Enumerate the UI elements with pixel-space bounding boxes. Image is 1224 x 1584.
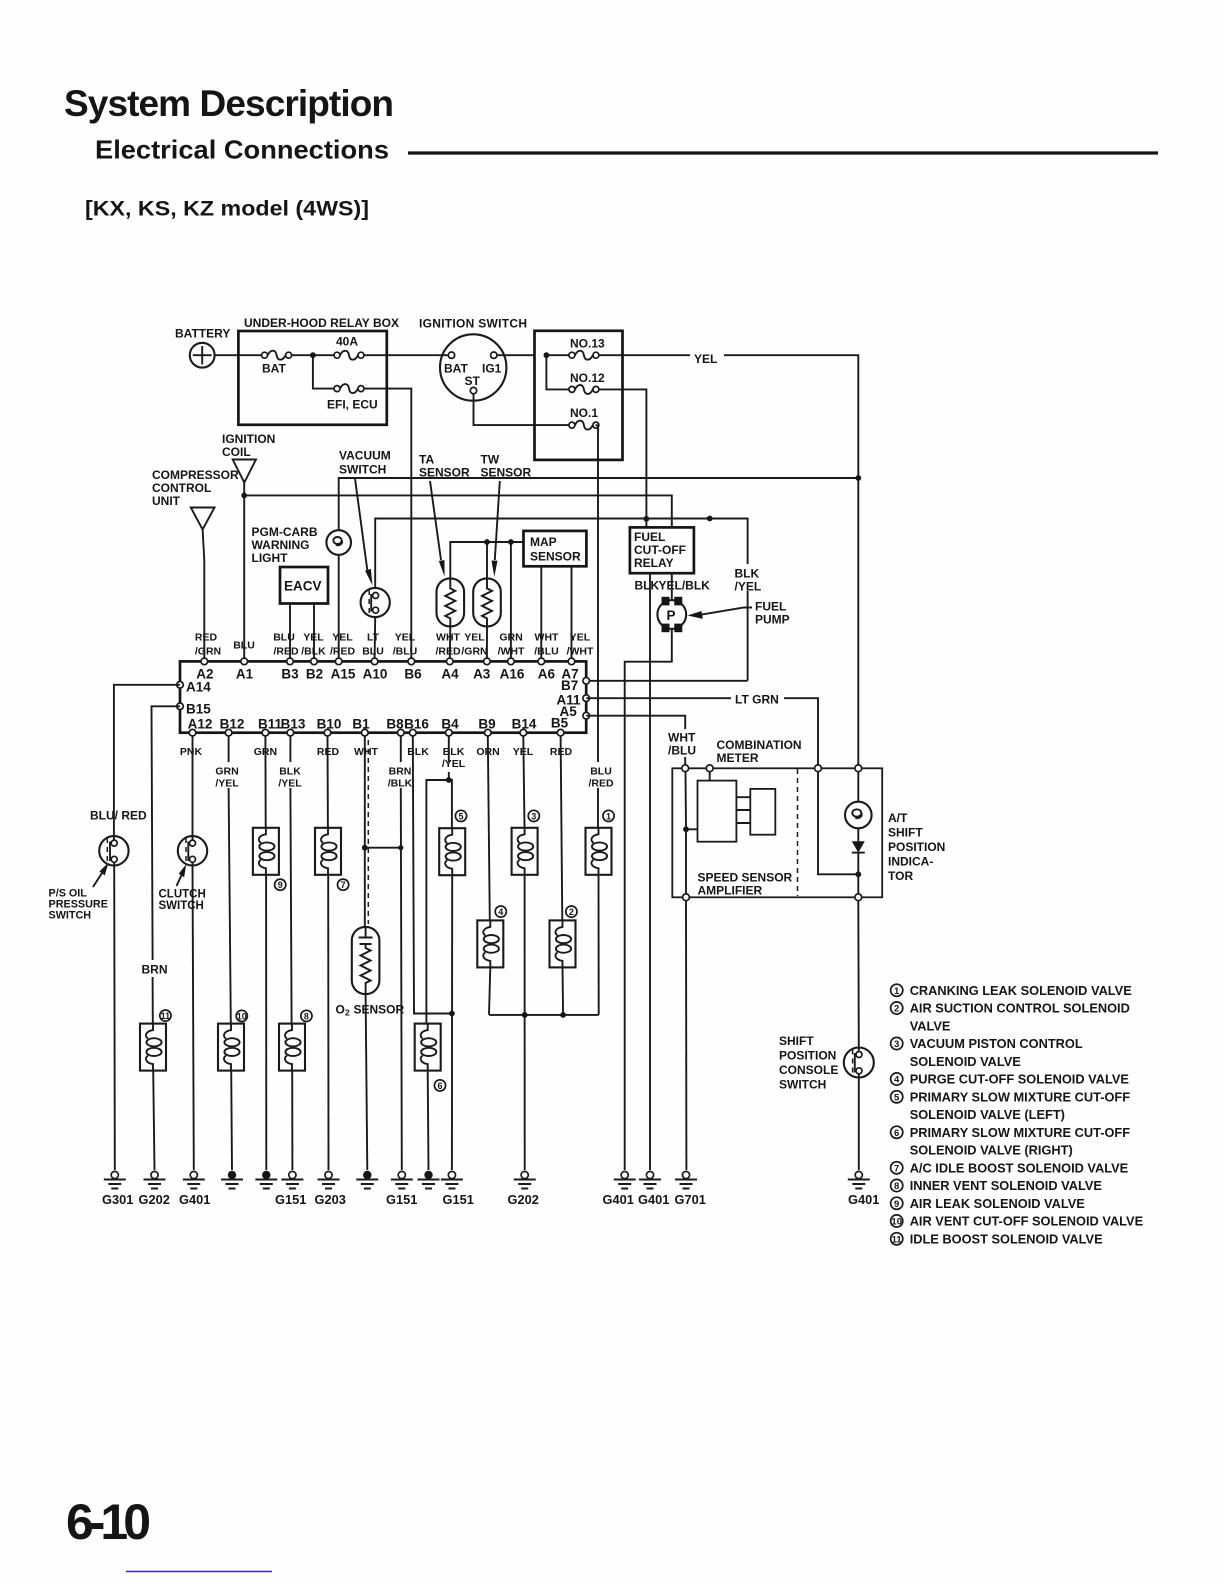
pin A6 [538,658,545,665]
horizontal wire y=495 coil to fuel cut-off relay [244,495,672,527]
pin B11 [262,729,269,736]
EACV box [280,567,328,604]
svg-text:BLK: BLK [635,579,660,593]
pin B14 [520,729,527,736]
pin B3 [287,658,294,665]
pin B5 [557,729,564,736]
svg-text:A14: A14 [186,680,211,695]
TA top lead and sensor common line y=542 [450,542,523,578]
solenoid 5 [439,828,465,875]
svg-text:A10: A10 [363,667,388,682]
svg-text:G203: G203 [315,1192,346,1207]
ground G151 [281,1171,303,1188]
B7 wire to BLK/YEL riser [586,680,747,682]
ground G301 [104,1171,126,1188]
svg-text:B15: B15 [186,702,211,717]
svg-text:3: 3 [894,1039,899,1050]
svg-text:/RED: /RED [435,646,461,658]
ignition coil triangle [233,460,256,483]
svg-text:SWITCH: SWITCH [49,910,92,922]
meter bottom edge circles [683,894,690,901]
blue artifact line bottom [126,1571,272,1573]
svg-text:O: O [336,1003,345,1017]
pin A11 [583,695,590,702]
svg-text:INNER VENT SOLENOID VALVE: INNER VENT SOLENOID VALVE [910,1178,1103,1193]
under-hood relay box [238,331,386,425]
svg-text:B1: B1 [352,717,370,732]
EACV leads to B3 B2 [290,604,314,659]
branch to solenoid 6 [426,780,448,1024]
svg-text:6: 6 [894,1128,899,1139]
wire compressor to A2 [203,530,205,659]
battery [190,343,215,368]
relay top-left lead to NO12 junction [645,519,647,527]
pin A1 [241,658,248,665]
pin A14 [177,682,184,689]
fuse NO.13 [546,354,569,356]
svg-text:P: P [667,608,676,623]
junction dot coil branch [241,493,247,499]
solenoid 9 [253,828,279,875]
pin B7 [583,678,590,685]
svg-text:BLU: BLU [273,632,295,644]
svg-text:8: 8 [304,1011,309,1021]
svg-text:2: 2 [894,1004,899,1015]
pin B9 [485,729,492,736]
compressor triangle [191,508,215,530]
fuse NO.1 [569,421,599,430]
solenoid 3 [512,828,538,875]
svg-text:7: 7 [341,880,346,890]
bulb lower lead to A15 [338,555,340,658]
solenoid 10 [218,1024,244,1071]
solenoid 4 [477,920,503,967]
svg-text:B16: B16 [404,717,429,732]
junction dot YEL line [855,475,861,481]
shift position console switch [844,1048,874,1078]
svg-text:CONTROL: CONTROL [152,481,211,495]
LT GRN run inside meter to indicator [818,772,858,875]
svg-text:INDICA-: INDICA- [888,855,933,869]
right fuse box [535,331,623,460]
fuse 40A [334,351,364,360]
svg-text:G401: G401 [638,1192,669,1207]
svg-text:CRANKING LEAK SOLENOID VALVE: CRANKING LEAK SOLENOID VALVE [910,983,1133,998]
svg-text:/YEL: /YEL [442,758,466,770]
svg-text:NO.12: NO.12 [570,371,605,385]
svg-text:SOLENOID VALVE (LEFT): SOLENOID VALVE (LEFT) [910,1107,1065,1122]
svg-text:/WHT: /WHT [498,646,525,658]
svg-text:B10: B10 [317,717,342,732]
pin B6 [408,658,415,665]
svg-text:1: 1 [894,986,900,997]
MAP leads to A6 A7 [541,566,571,658]
meter top edge connection circles [682,765,689,772]
svg-text:VACUUM: VACUUM [339,449,391,463]
ground (solenoid 10) [221,1171,243,1189]
wire label BLU/RED (solenoid 1) [586,762,617,788]
A12 wire to clutch switch (PNK) [192,736,194,842]
TA sensor body [437,578,465,626]
svg-text:AIR SUCTION CONTROL SOLENOID: AIR SUCTION CONTROL SOLENOID [910,1001,1130,1016]
svg-text:4: 4 [498,907,503,917]
svg-text:BLK: BLK [735,567,760,581]
wire label BLK/YEL (B13) [276,762,305,788]
vacuum switch leader arrow [355,479,367,571]
svg-text:/BLU: /BLU [534,646,559,658]
svg-text:BLU: BLU [233,640,255,652]
svg-text:1: 1 [606,811,611,821]
svg-text:A16: A16 [500,667,525,682]
svg-text:LIGHT: LIGHT [252,551,289,565]
header rule line [408,151,1158,154]
pin A2 [201,658,208,665]
svg-text:/GRN: /GRN [195,646,221,658]
svg-text:10: 10 [237,1011,247,1021]
pin B13 [287,729,294,736]
svg-text:B13: B13 [281,717,306,732]
pin A3 [484,658,491,665]
TA leader arrow [430,481,441,560]
svg-text:G401: G401 [848,1192,879,1207]
pin B2 [311,658,318,665]
svg-text:WHT: WHT [668,731,696,745]
wire label BRN/BLK (B8) [385,762,416,788]
svg-text:7: 7 [894,1164,899,1175]
svg-text:40A: 40A [336,335,358,349]
svg-text:G202: G202 [139,1192,170,1207]
svg-text:SHIFT: SHIFT [779,1034,814,1048]
svg-text:SWITCH: SWITCH [159,900,204,912]
svg-text:WARNING: WARNING [252,538,310,552]
svg-text:PUMP: PUMP [755,613,790,627]
svg-text:SENSOR: SENSOR [354,1003,405,1017]
svg-text:2: 2 [345,1008,350,1018]
B11 wire to solenoid 9 [264,736,266,828]
svg-text:IGNITION: IGNITION [222,432,275,446]
svg-text:BATTERY: BATTERY [175,327,230,341]
svg-text:5: 5 [458,811,463,821]
svg-text:A1: A1 [236,667,254,682]
pin B16 [410,729,417,736]
fuse NO.12 [546,355,569,389]
TW leader arrow [495,481,500,560]
svg-text:A4: A4 [441,667,459,682]
svg-text:11: 11 [161,1011,171,1021]
solenoid 2 [550,920,576,967]
svg-text:IG1: IG1 [482,361,502,375]
wire 40A to box edge and ignition switch [364,354,441,356]
svg-text:EACV: EACV [284,579,322,594]
svg-text:COMPRESSOR: COMPRESSOR [152,468,239,482]
svg-text:FUEL: FUEL [755,600,786,614]
svg-text:WHT: WHT [354,746,378,758]
B14 wire (YEL) to solenoid 3 [523,736,524,828]
ground G401 [183,1171,205,1188]
svg-text:NO.1: NO.1 [570,406,598,420]
NO.12 wire out to fuel cutoff relay drop [599,389,647,518]
pin A4 [447,658,454,665]
svg-text:YEL: YEL [332,632,353,644]
B13 wire to solenoid 8 [290,736,291,1024]
svg-text:BLK: BLK [279,766,301,778]
ground G151 [441,1171,463,1188]
svg-text:B7: B7 [561,678,578,693]
svg-text:YEL: YEL [303,632,324,644]
fuel pump lower lead to G401 drop [625,629,672,1170]
combination meter box [672,768,882,897]
NO.1 wire down (BLU/RED to solenoid 1) [596,425,599,827]
svg-text:POSITION: POSITION [779,1049,836,1063]
B10 wire to solenoid 7 [327,736,329,828]
svg-text:G401: G401 [603,1192,634,1207]
svg-text:B9: B9 [478,717,495,732]
svg-text:POSITION: POSITION [888,840,945,854]
B12 wire to solenoid 10 [229,736,231,1024]
svg-text:WHT: WHT [436,632,460,644]
svg-text:SOLENOID VALVE: SOLENOID VALVE [910,1054,1022,1069]
svg-text:SHIFT: SHIFT [888,826,923,840]
svg-text:G151: G151 [386,1192,417,1207]
svg-text:G701: G701 [675,1192,706,1207]
B9 wire (ORN) to solenoid 4 [488,736,490,921]
svg-text:BLU: BLU [590,766,612,778]
svg-text:SWITCH: SWITCH [779,1078,826,1092]
A14 wire to P/S oil pressure switch [114,685,180,840]
svg-text:SWITCH: SWITCH [339,463,386,477]
pin A10 [371,658,378,665]
svg-text:G151: G151 [275,1192,306,1207]
svg-text:Electrical Connections: Electrical Connections [95,135,389,165]
solenoid 11 [140,1024,166,1071]
svg-text:IDLE BOOST SOLENOID VALVE: IDLE BOOST SOLENOID VALVE [910,1232,1103,1247]
svg-text:COMBINATION: COMBINATION [717,738,802,752]
A/T shift indicator lamp [857,772,859,802]
B16 wire (BLK) joining solenoid 5 return [413,736,452,1014]
svg-text:B14: B14 [512,717,537,732]
svg-text:4: 4 [894,1075,900,1086]
solenoid 7 [315,828,341,875]
svg-text:RELAY: RELAY [634,556,674,570]
pin A16 [508,658,515,665]
svg-text:AMPLIFIER: AMPLIFIER [698,884,763,898]
svg-text:LT GRN: LT GRN [735,693,779,707]
svg-text:UNIT: UNIT [152,494,181,508]
svg-text:B12: B12 [220,717,245,732]
ground (solenoid 6) [418,1171,440,1189]
wire battery to relay box [215,354,264,356]
svg-text:METER: METER [717,751,759,765]
fuse EFI ECU [334,384,364,393]
solenoid ground bus [489,1014,599,1016]
B1 wire (WHT, shielded) to O2 sensor [364,736,366,927]
solenoid 6 [415,1024,441,1071]
fuse BAT [262,351,292,360]
svg-text:CLUTCH: CLUTCH [159,889,206,901]
B15 wire to solenoid 11 (BRN) [152,706,181,1023]
svg-text:G202: G202 [508,1192,539,1207]
svg-text:A12: A12 [188,717,213,732]
svg-text:TOR: TOR [888,869,913,883]
svg-text:PNK: PNK [180,746,203,758]
svg-text:6-10: 6-10 [66,1494,151,1550]
svg-text:NO.13: NO.13 [570,336,605,350]
svg-text:LT: LT [367,632,380,644]
wire BAT fuse to 40A fuse [292,354,334,356]
svg-text:TA: TA [419,453,434,467]
svg-text:WHT: WHT [535,632,559,644]
svg-text:SOLENOID VALVE (RIGHT): SOLENOID VALVE (RIGHT) [910,1143,1073,1158]
svg-text:B3: B3 [281,667,299,682]
ground G401 [848,1171,870,1188]
svg-text:B2: B2 [306,667,323,682]
svg-text:YEL: YEL [395,632,416,644]
svg-text:YEL: YEL [694,352,717,366]
svg-text:SENSOR: SENSOR [419,466,470,480]
svg-text:5: 5 [894,1093,900,1104]
vacuum switch lower lead to A10 [374,617,377,658]
pin A15 [335,658,342,665]
vacuum switch riser to y=518 line [375,519,747,681]
dashed divider inside meter [797,769,799,896]
svg-text:CUT-OFF: CUT-OFF [634,543,686,557]
wire label BLK/YEL (B4) [441,745,466,768]
svg-text:SENSOR: SENSOR [481,466,532,480]
svg-text:/BLK: /BLK [388,778,413,790]
svg-text:FUEL: FUEL [634,530,665,544]
svg-text:GRN: GRN [499,632,522,644]
svg-text:/YEL: /YEL [735,580,762,594]
svg-text:BLK: BLK [443,746,465,758]
ground G151 [391,1171,413,1188]
speed sensor amplifier [686,772,698,830]
fuel cut-off relay box [630,527,694,573]
svg-text:VACUUM PISTON CONTROL: VACUUM PISTON CONTROL [910,1036,1083,1051]
ground (O2 sensor) [356,1171,378,1189]
pin A12 [189,729,196,736]
svg-text:G151: G151 [443,1192,474,1207]
svg-text:YEL: YEL [570,632,591,644]
pin B10 [324,729,331,736]
svg-text:BLK: BLK [407,746,429,758]
ground G701 [675,1171,697,1188]
svg-text:/BLU: /BLU [668,744,696,758]
svg-text:2: 2 [569,907,574,917]
junction dot NO12/relay [644,516,650,522]
svg-text:RED: RED [195,632,218,644]
svg-text:System Description: System Description [64,83,394,124]
svg-text:MAP: MAP [530,535,557,549]
branch to EFI ECU fuse [313,355,334,388]
svg-text:G401: G401 [179,1192,210,1207]
ignition switch [440,334,506,400]
svg-text:[KX, KS, KZ model (4WS)]: [KX, KS, KZ model (4WS)] [85,197,369,221]
junction dot relay box [310,352,316,358]
svg-text:BRN: BRN [142,963,168,977]
svg-text:/BLK: /BLK [301,646,326,658]
svg-text:B5: B5 [551,716,569,731]
ground G401 [639,1171,661,1188]
svg-text:/YEL: /YEL [278,778,302,790]
svg-text:CONSOLE: CONSOLE [779,1063,838,1077]
A16 riser from sensor common line [510,542,512,658]
svg-text:COIL: COIL [222,445,251,459]
svg-text:9: 9 [894,1199,899,1210]
svg-text:ST: ST [465,374,481,388]
svg-text:BLU: BLU [362,646,384,658]
svg-text:11: 11 [892,1235,903,1246]
B8 wire to G151 [401,736,402,1170]
svg-text:/RED: /RED [588,778,614,790]
indicator diode [852,841,865,852]
svg-text:/RED: /RED [273,646,299,658]
svg-text:SENSOR: SENSOR [530,550,581,564]
svg-text:IGNITION SWITCH: IGNITION SWITCH [419,317,527,331]
ground G202 [514,1171,536,1188]
junction dot corner x=709.7 [707,516,713,522]
ground G401 [614,1171,636,1188]
wire label GRN/YEL (B12) [213,762,243,788]
svg-text:BAT: BAT [262,362,286,376]
svg-text:VALVE: VALVE [910,1018,951,1033]
svg-text:6: 6 [437,1081,442,1091]
svg-text:YEL/BLK: YEL/BLK [659,579,711,593]
svg-text:B6: B6 [404,667,422,682]
B5 wire (RED) to solenoid 2 [561,736,563,921]
svg-text:8: 8 [894,1181,899,1192]
A5 wire WHT/BLU to meter [586,716,685,769]
svg-text:AIR LEAK SOLENOID VALVE: AIR LEAK SOLENOID VALVE [910,1196,1086,1211]
svg-text:A6: A6 [538,667,556,682]
svg-text:PRIMARY SLOW MIXTURE CUT-OFF: PRIMARY SLOW MIXTURE CUT-OFF [910,1090,1131,1105]
svg-text:EFI, ECU: EFI, ECU [327,398,378,412]
svg-text:10: 10 [891,1217,902,1228]
svg-text:G301: G301 [102,1192,133,1207]
bulb riser to YEL junction line y=478 [339,478,859,530]
fuel pump motor [657,600,686,629]
junction dot NO13/NO12 [544,352,550,358]
BLK/YEL wire label (right of pump) [732,564,782,591]
pin B4 [446,729,453,736]
ground G203 [318,1171,340,1188]
svg-text:A/C IDLE BOOST SOLENOID VALVE: A/C IDLE BOOST SOLENOID VALVE [910,1161,1129,1176]
svg-text:BLU/ RED: BLU/ RED [90,809,147,823]
pin A7 [568,658,575,665]
svg-text:/WHT: /WHT [567,646,594,658]
B4 wire (BLK/YEL) to solenoid 5 [449,736,452,828]
svg-text:GRN: GRN [215,766,238,778]
pin B8 [398,729,405,736]
TA TW lower leads to A4 A3 [450,626,487,658]
P/S switch lower wire to G301 [113,862,116,1170]
A11 wire LT GRN to meter [586,698,818,768]
svg-text:3: 3 [531,811,536,821]
svg-text:/YEL: /YEL [215,778,239,790]
TW top lead [486,542,488,578]
svg-text:TW: TW [481,453,500,467]
svg-text:A3: A3 [473,667,491,682]
svg-text:B8: B8 [386,717,404,732]
MAP sensor box [524,531,587,566]
O2 sensor [352,927,380,994]
solenoid 1 [586,828,612,875]
wire coil to A1 [243,483,245,659]
ground G202 [144,1171,166,1188]
P/S oil pressure switch [99,836,128,865]
svg-text:UNDER-HOOD RELAY BOX: UNDER-HOOD RELAY BOX [244,316,399,330]
pin A5 [583,712,590,719]
svg-text:9: 9 [278,880,283,890]
